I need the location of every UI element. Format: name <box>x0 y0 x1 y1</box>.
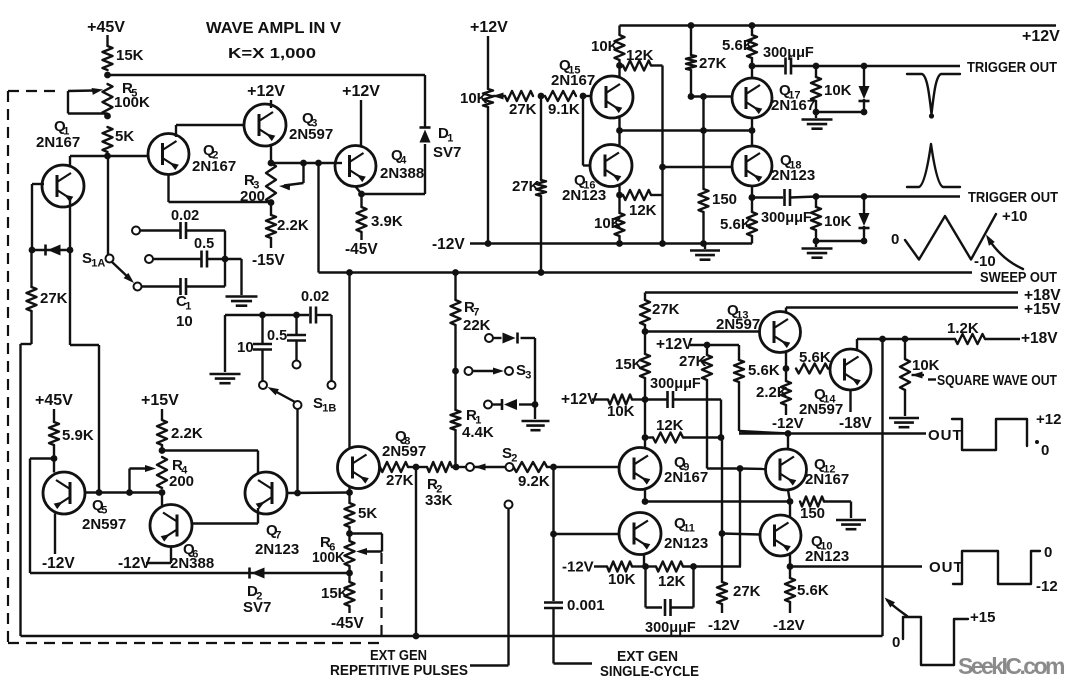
node <box>300 160 307 167</box>
label R6 <box>312 534 345 566</box>
node <box>704 342 711 349</box>
wire 27K col q9 <box>679 345 712 469</box>
label Q16 <box>562 172 606 204</box>
node <box>346 489 353 496</box>
svg-text:300μμF: 300μμF <box>761 210 812 226</box>
wire Q1 col2 down <box>70 250 99 493</box>
wire bank2 left <box>224 315 226 372</box>
label Q11 <box>664 515 708 552</box>
svg-text:2N123: 2N123 <box>664 535 708 552</box>
wire Q2 emitter loop <box>169 175 272 203</box>
diode Q1 clamp <box>32 244 71 255</box>
svg-text:2N167: 2N167 <box>192 158 236 175</box>
wire Q3 emitter <box>270 144 272 163</box>
svg-text:K=X 1,000: K=X 1,000 <box>228 45 316 62</box>
wire 0.001 col <box>552 467 554 601</box>
wire 5.6K col q12 <box>707 345 788 434</box>
svg-text:3.9K: 3.9K <box>371 213 403 230</box>
transistor Q10 <box>760 515 801 556</box>
wire r2 col down <box>415 467 417 636</box>
power label +45V q5 <box>35 392 73 409</box>
power label +45V <box>87 19 125 36</box>
resistor 1.2K <box>947 320 1058 347</box>
power label -12V q5 <box>42 555 75 572</box>
node <box>485 240 492 247</box>
ground 150 <box>836 520 866 529</box>
svg-text:2N597: 2N597 <box>82 516 126 533</box>
power label +12V Q4 <box>342 83 380 100</box>
wire <box>751 66 753 78</box>
svg-text:0: 0 <box>1041 442 1049 459</box>
power label -12V q6 <box>118 555 151 572</box>
svg-text:15K: 15K <box>116 47 144 64</box>
svg-text:27K: 27K <box>652 301 680 318</box>
svg-text:200: 200 <box>240 188 265 205</box>
svg-text:2N167: 2N167 <box>664 469 708 486</box>
svg-text:REPETITIVE PULSES: REPETITIVE PULSES <box>330 663 468 679</box>
resistor 150 <box>699 189 738 244</box>
rail +18V <box>645 287 1061 304</box>
wiper R3 <box>279 163 304 190</box>
node <box>315 160 322 167</box>
node <box>879 336 886 343</box>
wire <box>270 100 272 108</box>
svg-text:2.2K: 2.2K <box>171 425 203 442</box>
diode D1 <box>419 128 430 143</box>
cap 0.02 row <box>132 208 225 239</box>
wire branch left <box>30 459 54 574</box>
node <box>616 192 623 199</box>
wire <box>707 467 740 469</box>
node <box>346 530 353 537</box>
node <box>413 464 420 471</box>
wire cross 663 <box>651 66 663 244</box>
svg-text:5.6K: 5.6K <box>720 216 752 233</box>
ground sq <box>889 418 919 427</box>
transistor Q7 <box>245 472 287 514</box>
dashed box right side <box>380 553 382 643</box>
resistor R4 <box>157 457 194 490</box>
resistor 27K q8 <box>380 462 414 489</box>
svg-text:EXT GEN: EXT GEN <box>617 649 678 665</box>
svg-text:-12V: -12V <box>432 236 465 253</box>
svg-text:+45V: +45V <box>35 392 73 409</box>
label Q18 <box>771 152 815 184</box>
svg-text:+15: +15 <box>970 609 995 626</box>
svg-text:12K: 12K <box>629 202 657 219</box>
watermark <box>958 653 1065 679</box>
svg-text:0.02: 0.02 <box>171 208 199 224</box>
label Q7 <box>255 522 299 558</box>
svg-text:-45V: -45V <box>331 615 364 632</box>
svg-text:0: 0 <box>891 231 899 248</box>
svg-text:1: 1 <box>185 301 191 313</box>
transistor Q2 <box>148 134 189 175</box>
wire D2 row <box>30 572 350 574</box>
cap 0.001 <box>544 597 605 614</box>
svg-text:+12V: +12V <box>656 336 693 353</box>
node <box>659 240 666 247</box>
transistor Q3 <box>244 104 286 146</box>
ground to2 <box>802 241 833 258</box>
wire <box>53 445 55 473</box>
svg-text:1: 1 <box>447 133 453 145</box>
node junction <box>104 113 111 120</box>
svg-text:SWEEP OUT: SWEEP OUT <box>980 270 1057 286</box>
node <box>268 160 275 167</box>
label C1 <box>176 293 193 330</box>
dashed box bottom <box>8 642 382 644</box>
diode D2 <box>250 567 265 578</box>
wire <box>53 409 55 422</box>
svg-text:-18V: -18V <box>839 415 872 432</box>
wiper 10K <box>493 93 506 100</box>
transistor Q4 <box>335 146 376 187</box>
ground to1 <box>802 112 833 129</box>
label square wave out <box>928 373 1057 389</box>
wire Q12 base <box>740 467 766 470</box>
svg-text:27K: 27K <box>512 178 540 195</box>
out row2 <box>790 559 964 576</box>
wire Q5 emitter <box>54 514 56 555</box>
svg-text:100K: 100K <box>114 94 150 111</box>
terminal <box>259 381 267 389</box>
node <box>718 434 725 441</box>
svg-text:-10: -10 <box>974 253 996 270</box>
node <box>550 531 557 538</box>
svg-text:5K: 5K <box>358 505 377 522</box>
resistor R5 <box>103 80 151 115</box>
svg-text:+12V: +12V <box>342 83 380 100</box>
wire <box>813 238 868 245</box>
label Q4 <box>380 147 424 182</box>
label D1 <box>433 125 461 161</box>
node <box>737 465 744 472</box>
wire <box>106 35 108 46</box>
wire bank1 right <box>224 231 226 287</box>
resistor R1 4.4K <box>451 371 494 467</box>
wire <box>360 100 362 146</box>
transistor Q6 <box>150 505 192 547</box>
svg-text:-45V: -45V <box>345 241 378 258</box>
svg-text:27K: 27K <box>40 290 68 307</box>
terminal <box>293 361 301 369</box>
label Q8 <box>382 428 426 460</box>
cap C1 row <box>134 278 226 295</box>
top rail +12V <box>620 26 1061 46</box>
svg-text:+45V: +45V <box>87 19 125 36</box>
resistor 27K h <box>505 91 537 118</box>
svg-text:+10: +10 <box>1002 208 1027 225</box>
resistor 12K top <box>623 47 654 71</box>
resistor 5K q8 <box>345 493 378 534</box>
switch S3 row3 <box>484 399 535 410</box>
waveform pos spike <box>907 144 960 187</box>
resistor 15K <box>103 46 144 70</box>
wire Q2 collector <box>176 125 245 137</box>
node <box>268 199 275 206</box>
wire Q18 emitter <box>751 186 753 198</box>
wire <box>330 315 332 381</box>
svg-text:SeekIC.com: SeekIC.com <box>958 653 1065 679</box>
svg-text:5.9K: 5.9K <box>62 427 94 444</box>
resistor 27K q10 <box>717 438 761 614</box>
svg-text:10K: 10K <box>608 571 636 588</box>
node <box>787 563 794 570</box>
svg-text:10K: 10K <box>824 82 852 99</box>
svg-text:+12V: +12V <box>470 19 508 36</box>
wire to ground <box>225 259 242 295</box>
node <box>659 164 666 171</box>
svg-text:3: 3 <box>525 370 531 382</box>
svg-text:-12V: -12V <box>118 555 151 572</box>
svg-text:2N388: 2N388 <box>380 165 424 182</box>
wire top rail <box>108 74 426 76</box>
power label -18V <box>839 415 872 432</box>
svg-text:OUT: OUT <box>929 559 964 576</box>
pot 10K sq <box>900 339 940 416</box>
pot 10K <box>460 89 493 107</box>
out row1 <box>739 427 963 444</box>
wire Q13 base <box>645 330 760 332</box>
label Q2 <box>192 142 236 175</box>
cap 10 <box>237 315 272 381</box>
svg-text:2N123: 2N123 <box>255 541 299 558</box>
transistor Q12 <box>766 449 807 490</box>
svg-text:EXT GEN: EXT GEN <box>370 648 427 664</box>
wire Q10 emitter <box>789 554 791 567</box>
wire Q14 emitter <box>849 390 851 412</box>
svg-text:SV7: SV7 <box>433 144 461 161</box>
wire Q10 collector <box>789 502 791 518</box>
resistor 5.6K q13 <box>796 349 831 374</box>
wire 542 col <box>512 96 546 273</box>
node <box>616 127 623 134</box>
svg-text:2N597: 2N597 <box>382 443 426 460</box>
wire Q12 collector <box>787 434 789 450</box>
node <box>642 498 649 505</box>
cap 300uuF q9 <box>645 376 721 408</box>
node <box>787 498 794 505</box>
node <box>538 269 545 276</box>
svg-text:0.5: 0.5 <box>267 328 287 344</box>
svg-text:10K: 10K <box>460 90 488 107</box>
wire Q17 base <box>691 95 732 97</box>
wire Q8 emitter <box>348 486 350 493</box>
label ext gen rep <box>330 648 468 679</box>
resistor 5.9K <box>49 422 94 445</box>
node Q1 base row <box>104 153 111 160</box>
node <box>616 240 623 247</box>
wire <box>487 107 489 244</box>
svg-text:27K: 27K <box>509 101 537 118</box>
node <box>642 328 649 335</box>
resistor R2 33K <box>425 462 453 509</box>
label Q3 <box>289 110 333 143</box>
node <box>700 240 707 247</box>
svg-text:300μμF: 300μμF <box>763 45 814 61</box>
wire Q11 emitter <box>643 554 645 567</box>
wire Q11 base <box>554 533 620 535</box>
wire Q17 emitter <box>751 118 753 131</box>
node <box>96 489 103 496</box>
node <box>580 93 587 100</box>
svg-text:27K: 27K <box>733 583 761 600</box>
svg-text:+18V: +18V <box>1021 330 1058 347</box>
svg-text:2N597: 2N597 <box>289 126 333 143</box>
resistor 9.1K <box>545 91 580 118</box>
svg-text:0.001: 0.001 <box>567 597 605 614</box>
wire <box>408 466 466 468</box>
node <box>642 396 649 403</box>
transistor Q13 <box>760 312 801 353</box>
svg-text:12K: 12K <box>626 47 654 64</box>
wire Q18 base <box>663 166 733 168</box>
node <box>358 191 365 198</box>
wire Q6 emitter <box>146 547 171 564</box>
node <box>700 127 707 134</box>
wire Q7 base row <box>287 491 350 494</box>
resistor 5.6K q17 <box>722 22 757 66</box>
svg-text:OUT: OUT <box>928 427 963 444</box>
wire Q10 base <box>722 534 760 535</box>
svg-text:TRIGGER OUT: TRIGGER OUT <box>968 190 1058 206</box>
node <box>538 93 545 100</box>
node <box>749 127 756 134</box>
wire <box>161 409 163 420</box>
svg-text:5.6K: 5.6K <box>797 582 829 599</box>
wire Q2 base <box>108 155 149 157</box>
switch S3 row1 <box>485 332 535 404</box>
wire S1B down <box>296 409 298 493</box>
resistor 2.2K q13 <box>756 369 791 416</box>
svg-text:2N388: 2N388 <box>170 555 214 572</box>
svg-text:2N123: 2N123 <box>771 167 815 184</box>
cap 0.5 b2 <box>267 315 306 361</box>
svg-text:2N123: 2N123 <box>562 187 606 204</box>
svg-text:10K: 10K <box>824 213 852 230</box>
svg-text:12K: 12K <box>658 573 686 590</box>
power label -45V q8 <box>331 615 364 632</box>
wire <box>554 608 593 664</box>
svg-text:-15V: -15V <box>252 252 285 269</box>
diode to1 <box>858 66 869 112</box>
svg-text:TRIGGER OUT: TRIGGER OUT <box>967 60 1057 76</box>
svg-text:2N167: 2N167 <box>805 471 849 488</box>
node <box>700 93 707 100</box>
wire Q5 base row <box>85 491 162 493</box>
resistor 15K q9 <box>615 332 650 400</box>
node <box>51 455 58 462</box>
svg-text:+12V: +12V <box>247 83 285 100</box>
svg-text:100K: 100K <box>312 549 345 566</box>
svg-text:-12V: -12V <box>708 617 740 634</box>
power label -45V <box>345 241 378 258</box>
svg-text:2N167: 2N167 <box>551 72 595 89</box>
trigger out row1 <box>813 60 1058 76</box>
resistor 2.2K <box>266 203 309 248</box>
resistor R6 <box>345 534 355 574</box>
resistor 150 q12 <box>800 497 851 523</box>
svg-text:0: 0 <box>892 634 900 651</box>
wire 488 col <box>487 36 489 89</box>
svg-text:4.4K: 4.4K <box>462 424 494 441</box>
svg-text:-12V: -12V <box>562 559 594 576</box>
resistor 2.2K q6 <box>157 420 203 451</box>
resistor 15K q8 <box>321 573 355 613</box>
wire Q9 base <box>554 466 620 468</box>
svg-text:15K: 15K <box>615 356 643 373</box>
cap bank2 top row <box>225 289 332 324</box>
svg-text:0.02: 0.02 <box>301 289 329 305</box>
svg-text:2N123: 2N123 <box>805 548 849 565</box>
transistor Q18 <box>732 146 772 186</box>
node <box>453 464 460 471</box>
wire ext rep pulses <box>470 501 513 666</box>
svg-text:300μμF: 300μμF <box>650 376 701 392</box>
svg-text:11: 11 <box>683 523 695 535</box>
resistor 10K to2 <box>811 197 852 242</box>
wire Q13 emitter <box>785 352 787 369</box>
cap 300uuF q11 <box>645 567 696 637</box>
svg-text:300μμF: 300μμF <box>645 620 696 636</box>
svg-text:12K: 12K <box>656 417 684 434</box>
switch S3 wiper <box>465 362 532 382</box>
label Q6 <box>170 541 214 572</box>
svg-text:-12V: -12V <box>772 415 804 432</box>
switch S1A <box>82 156 134 283</box>
label Q1 <box>36 118 80 151</box>
svg-text:SV7: SV7 <box>243 599 271 616</box>
resistor 27K <box>27 250 68 344</box>
power label -12V q13 <box>772 415 804 432</box>
wire 150 col <box>702 97 704 190</box>
wire Q1 collector <box>32 184 44 250</box>
svg-text:10K: 10K <box>912 357 940 374</box>
transistor Q16 <box>590 145 632 187</box>
wire <box>534 405 536 420</box>
svg-text:+12: +12 <box>1036 411 1061 428</box>
svg-text:+15V: +15V <box>141 392 179 409</box>
node <box>126 489 133 496</box>
resistor 10K q11 <box>607 562 646 589</box>
waveform triangle <box>891 208 1027 270</box>
label Q5 <box>82 497 126 533</box>
svg-text:9.1K: 9.1K <box>548 101 580 118</box>
resistor 10K q15 <box>591 26 625 61</box>
label D2 <box>243 583 271 616</box>
label Q17 <box>771 82 815 114</box>
label Q12 <box>805 456 849 488</box>
cap 300uuF t1 <box>752 45 816 75</box>
node <box>294 490 301 497</box>
wire R4 top row <box>162 451 258 474</box>
node <box>67 247 74 254</box>
transistor Q17 <box>732 78 772 118</box>
power label -12V q10 <box>773 617 805 634</box>
power label -15V <box>252 252 285 269</box>
resistor 27K q13 <box>640 293 680 332</box>
wire R3 top row <box>271 162 334 164</box>
wiper 10K sq <box>912 372 925 379</box>
svg-text:1B: 1B <box>322 403 336 415</box>
wire inner box bottom <box>21 635 883 637</box>
svg-text:2N167: 2N167 <box>36 134 80 151</box>
wire Q4 base <box>334 162 342 164</box>
svg-text:SINGLE-CYCLE: SINGLE-CYCLE <box>600 664 699 680</box>
node <box>222 256 229 263</box>
power label -12V q10l <box>708 617 740 634</box>
